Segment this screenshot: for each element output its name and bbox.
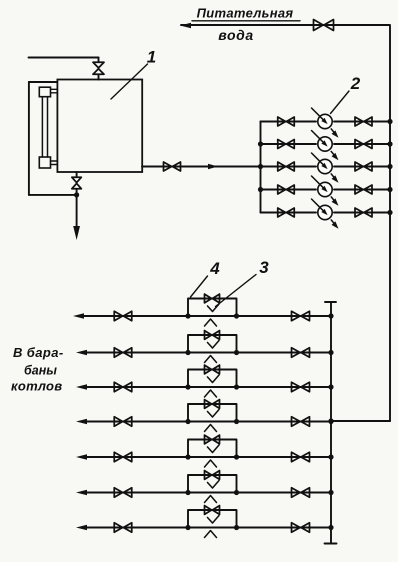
junction left of bypass 4 [185, 419, 190, 424]
junction of drain and recirculation loop [74, 192, 79, 197]
svg-text:1: 1 [147, 48, 156, 67]
junction right of bypass 3 [234, 384, 239, 389]
arrow at branch 6 left end [76, 490, 87, 495]
gauge upper square [39, 87, 50, 97]
pipe: branch 2 right segment [237, 352, 332, 354]
arrow at branch 5 left end [76, 454, 87, 459]
arrow at branch 4 left end [76, 419, 87, 424]
pipe: branch 7 right segment [237, 527, 332, 529]
valve on branch 2 left [114, 348, 132, 358]
pipe: branch 5 middle segment [188, 456, 237, 458]
regulating valve (3) mark on branch 1 [205, 319, 217, 326]
bypass valve (4) on loop 4 [205, 400, 220, 409]
seat mark under bypass valve 4 [208, 410, 220, 418]
pipe: feed water main line [181, 24, 389, 26]
svg-text:вода: вода [218, 27, 254, 43]
junction left of bypass 7 [185, 525, 190, 530]
junction right of bypass 6 [234, 490, 239, 495]
pipe: branch 7 to boiler drum [83, 527, 188, 529]
pipe: recirculation loop bottom [29, 194, 77, 196]
junction left of bypass 5 [185, 454, 190, 459]
pipe: branch 3 right segment [237, 386, 332, 388]
valve right of pump 2 [355, 140, 372, 149]
valve on branch 6 left [114, 488, 132, 498]
junction branch 1 on header [328, 313, 333, 318]
gauge lower stubs to vessel [51, 161, 58, 165]
pipe: branch 3 middle segment [188, 386, 237, 388]
pipe: pump row 2 left segment [261, 143, 317, 145]
valve left of pump 4 [278, 185, 295, 194]
seat mark under bypass valve 2 [208, 341, 220, 349]
leader line for label 1 [111, 64, 148, 99]
junction right of bypass 7 [234, 525, 239, 530]
junction right of bypass 5 [234, 454, 239, 459]
flow arrow on heater outlet [208, 164, 218, 169]
valve on branch 3 left [114, 382, 132, 392]
pipe: heater drain from vessel bottom [76, 172, 78, 177]
bypass valve (4) on loop 5 [205, 435, 220, 444]
junction branch 3 on header [328, 384, 333, 389]
junction left of bypass 2 [185, 350, 190, 355]
valve on branch 7 right [292, 523, 310, 533]
valve on feed water line [314, 20, 334, 31]
leader line for label 2 [331, 91, 350, 114]
pipe: recirculation loop top [29, 81, 57, 83]
svg-text:3: 3 [259, 258, 269, 277]
pump/injector 3 (circle with arrow) [312, 153, 339, 183]
bypass loop 2 [188, 335, 237, 353]
pump/injector 4 (circle with arrow) [312, 176, 339, 206]
valve on branch 4 right [292, 417, 310, 427]
junction row 5 on right riser [387, 210, 392, 215]
pipe: branch 1 right segment [237, 315, 332, 317]
pipe: branch 5 to boiler drum [83, 456, 188, 458]
pump/injector 5 (circle with arrow) [312, 199, 339, 229]
pipe: pump row 1 right segment [334, 121, 390, 123]
pipe: pump row 4 left segment [261, 189, 317, 191]
pump/injector 2 (circle with arrow) [312, 131, 339, 161]
pipe: branch 2 to boiler drum [83, 352, 188, 354]
valve on branch 1 left [114, 311, 132, 321]
arrow at branch 3 left end [76, 384, 87, 389]
arrow at branch 7 left end [76, 525, 87, 530]
svg-text:2: 2 [350, 74, 361, 93]
bypass valve (4) on loop 2 [205, 331, 220, 340]
valve right of pump 5 [355, 208, 372, 217]
pipe: pump row 5 right segment [334, 212, 390, 214]
label 'Питательная' (feed water) [197, 6, 294, 21]
junction row 4 on right riser [387, 187, 392, 192]
pipe: heater outlet line [142, 166, 261, 168]
seat mark under bypass valve 7 [208, 516, 220, 524]
bypass loop 7 [188, 510, 237, 528]
valve atop heater vessel [93, 62, 104, 74]
valve right of pump 3 [355, 162, 372, 171]
regulating valve (3) mark on branch 4 [205, 425, 217, 432]
pipe: pump row 2 right segment [334, 143, 390, 145]
bypass valve (4) on loop 1 [205, 294, 220, 303]
pipe: branch 6 to boiler drum [83, 492, 188, 494]
lower header bottom cap [325, 543, 337, 545]
pipe: branch 4 middle segment [188, 421, 237, 423]
junction row 2 on right riser [387, 141, 392, 146]
pipe: drain downcomer [76, 195, 78, 228]
valve on branch 1 right [292, 311, 310, 321]
pipe: valve to vessel top [98, 75, 100, 80]
junction left of bypass 1 [185, 313, 190, 318]
svg-text:Питательная: Питательная [197, 6, 294, 21]
label 4 [209, 259, 220, 278]
heater vessel 1 (rectangle) [57, 80, 142, 173]
junction of feed line on header [328, 418, 333, 423]
label 'вода' [218, 27, 254, 43]
junction row 1 on right riser [387, 119, 392, 124]
valve left of pump 1 [278, 117, 295, 126]
gauge upper stubs to vessel [51, 89, 58, 93]
junction left of bypass 6 [185, 490, 190, 495]
seat mark under bypass valve 5 [208, 445, 220, 453]
label 1 [147, 48, 156, 67]
valve on branch 7 left [114, 523, 132, 533]
junction on pump-bank left header [258, 141, 263, 146]
arrow at branch 2 left end [76, 350, 87, 355]
junction branch 4 on header [328, 419, 333, 424]
leader line for label 4 [191, 276, 208, 297]
junction branch 2 on header [328, 350, 333, 355]
bypass valve (4) on loop 7 [205, 506, 220, 515]
junction branch 5 on header [328, 454, 333, 459]
valve left of pump 5 [278, 208, 295, 217]
underline under 'Питательная' [192, 20, 300, 22]
valve on heater outlet [164, 162, 181, 171]
bypass loop 3 [188, 370, 237, 388]
bypass loop 1 [188, 299, 237, 317]
label 'В бара-' (to boiler drums) [13, 345, 64, 360]
gauge glass tubes [42, 97, 47, 157]
pipe: branch 6 right segment [237, 492, 332, 494]
bypass loop 6 [188, 475, 237, 493]
pipe: right feed riser (down right side) [389, 25, 391, 421]
seat mark under bypass valve 3 [208, 375, 220, 383]
valve on branch 4 left [114, 417, 132, 427]
pipe: branch 6 middle segment [188, 492, 237, 494]
pipe: branch 3 to boiler drum [83, 386, 188, 388]
valve on branch 6 right [292, 488, 310, 498]
pipe: steam supply line to heater [29, 57, 99, 59]
lower right header [330, 302, 332, 544]
junction row 3 on right riser [387, 164, 392, 169]
pipe: branch 5 right segment [237, 456, 332, 458]
pipe: branch 1 to boiler drum [80, 315, 188, 317]
bypass valve (4) on loop 3 [205, 365, 220, 374]
bypass loop 5 [188, 440, 237, 458]
valve right of pump 1 [355, 117, 372, 126]
pipe: branch 4 right segment [237, 421, 332, 423]
svg-text:4: 4 [209, 259, 220, 278]
label 3 [259, 258, 269, 277]
pipe: branch 4 to boiler drum [83, 421, 188, 423]
lower header top cap [325, 301, 336, 303]
arrow at feed water line left end [180, 23, 191, 28]
junction right of bypass 2 [234, 350, 239, 355]
label 2 [350, 74, 361, 93]
regulating valve (3) mark on branch 3 [205, 390, 217, 397]
label 'котлов' [11, 379, 62, 394]
arrow at branch 1 left end [73, 313, 84, 318]
regulating valve (3) mark on branch 6 [205, 496, 217, 503]
regulating valve (3) mark on branch 5 [205, 460, 217, 467]
seat mark under bypass valve 1 [208, 304, 220, 312]
seat mark under bypass valve 6 [208, 481, 220, 489]
valve on branch 3 right [292, 382, 310, 392]
valve on branch 5 right [292, 452, 310, 462]
pipe: branch 2 middle segment [188, 352, 237, 354]
pipe: drain to junction [76, 189, 78, 195]
pump-bank left header [260, 122, 262, 213]
pipe: drop to heater top valve [98, 58, 100, 63]
junction branch 7 on header [328, 525, 333, 530]
bypass loop 4 [188, 404, 237, 422]
pipe: feed connection to lower header [331, 420, 390, 422]
gauge lower square [39, 157, 50, 168]
valve right of pump 4 [355, 185, 372, 194]
pipe: pump row 1 left segment [261, 121, 317, 123]
svg-text:баны: баны [24, 364, 57, 378]
regulating valve (3) mark on branch 2 [205, 356, 217, 363]
pipe: branch 7 middle segment [188, 527, 237, 529]
junction right of bypass 4 [234, 419, 239, 424]
junction branch 6 on header [328, 490, 333, 495]
valve on branch 5 left [114, 452, 132, 462]
junction left of bypass 3 [185, 384, 190, 389]
svg-text:котлов: котлов [11, 379, 62, 394]
arrow at drain outlet (down) [73, 226, 80, 240]
bypass valve (4) on loop 6 [205, 471, 220, 480]
junction on pump-bank left header [258, 187, 263, 192]
junction right of bypass 1 [234, 313, 239, 318]
pipe: pump row 3 left segment [261, 166, 317, 168]
pipe: pump row 3 right segment [334, 166, 390, 168]
valve left of pump 3 [278, 162, 295, 171]
junction on pump-bank left header [258, 164, 263, 169]
regulating valve (3) mark on branch 7 [205, 531, 217, 538]
pipe: pump row 4 right segment [334, 189, 390, 191]
label 'баны' [24, 364, 57, 378]
pipe: recirculation loop left riser [28, 82, 30, 195]
pipe: branch 1 middle segment [188, 315, 237, 317]
valve left of pump 2 [278, 140, 295, 149]
pipe: pump row 5 left segment [261, 212, 317, 214]
leader line for label 3 [216, 275, 257, 307]
valve on branch 2 right [292, 348, 310, 358]
pump/injector 1 (circle with arrow) [312, 108, 339, 138]
valve on heater drain [72, 177, 82, 189]
svg-text:В бара-: В бара- [13, 345, 64, 360]
